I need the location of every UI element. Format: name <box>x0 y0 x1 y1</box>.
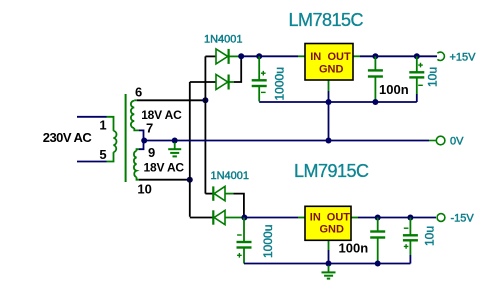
wire pin7 step <box>139 130 144 140</box>
junction node C1 top <box>256 53 262 59</box>
terminal -15V <box>437 214 445 222</box>
wire U1 gnd to 0V rail <box>328 91 330 141</box>
capacitor C3 10u <box>409 56 424 94</box>
regulator U1 LM7815C <box>298 44 360 92</box>
wire pin10 to diodes <box>139 179 190 181</box>
svg-text:230V AC: 230V AC <box>43 130 93 145</box>
svg-text:5: 5 <box>99 147 106 162</box>
svg-text:1N4001: 1N4001 <box>204 34 243 46</box>
wire 0V rail <box>144 140 429 142</box>
wire U1 output rail <box>360 55 437 57</box>
terminal 0V <box>436 136 445 145</box>
junction node C5 top <box>375 215 381 221</box>
svg-text:-15V: -15V <box>451 213 475 225</box>
wire vertical pin10 bus <box>189 82 191 217</box>
junction node C5 bottom <box>375 261 381 267</box>
junction node gnd cap rail <box>326 99 332 105</box>
ground centre tap <box>168 143 181 157</box>
svg-text:100n: 100n <box>339 240 369 255</box>
junction node gnd 0V rail <box>326 138 332 144</box>
wire capacitor bottom rail lower <box>244 263 410 265</box>
diode D4 1N4001 <box>190 210 245 224</box>
wire C3 bottom corner <box>416 94 418 102</box>
diode D3 1N4001 <box>205 186 233 200</box>
capacitor C4 1000u <box>237 218 252 264</box>
svg-text:LM7915C: LM7915C <box>294 161 369 181</box>
junction node C2 top <box>372 53 378 59</box>
svg-text:OUT: OUT <box>327 211 351 223</box>
junction node centre tap <box>141 138 147 144</box>
wire capacitor bottom rail upper <box>259 101 417 103</box>
junction node C3 top <box>414 53 420 59</box>
svg-text:IN: IN <box>310 51 321 63</box>
wire negative rail <box>244 217 298 219</box>
wire positive rail <box>241 55 298 57</box>
junction node pin6 <box>202 97 208 103</box>
capacitor C1 1000u <box>252 56 267 101</box>
regulator U2 LM7915C <box>298 206 358 250</box>
junction node pin10 <box>187 177 193 183</box>
wire U2 output rail <box>358 217 436 219</box>
svg-text:+15V: +15V <box>450 51 477 63</box>
svg-text:1: 1 <box>99 118 106 133</box>
junction node C2 bottom <box>372 99 378 105</box>
wire D2 cathode to positive node <box>234 56 241 82</box>
svg-text:7: 7 <box>146 120 153 135</box>
svg-text:9: 9 <box>148 145 155 160</box>
svg-text:GND: GND <box>319 64 344 76</box>
transformer T1 secondary winding lower 18V <box>134 149 139 180</box>
svg-text:1000u: 1000u <box>261 225 275 258</box>
diode D1 1N4001 <box>205 49 241 64</box>
diode D2 1N4001 <box>190 75 234 90</box>
transformer T1 core <box>125 94 127 182</box>
svg-text:100n: 100n <box>379 82 409 97</box>
svg-text:GND: GND <box>320 223 345 235</box>
wire D3 anode to negative node <box>233 194 244 218</box>
svg-text:10u: 10u <box>423 226 437 246</box>
wire vertical pin6 bus <box>204 56 206 193</box>
svg-text:1000u: 1000u <box>273 67 287 100</box>
svg-text:6: 6 <box>135 84 142 99</box>
svg-text:OUT: OUT <box>328 51 352 63</box>
svg-text:18V AC: 18V AC <box>144 161 185 175</box>
transformer T1 secondary winding upper 18V <box>131 100 139 130</box>
svg-text:10: 10 <box>137 182 151 197</box>
transformer T1 primary winding 230V <box>114 131 117 152</box>
wire U2 gnd to cap rail <box>328 250 330 264</box>
wire C6 bottom corner <box>409 255 411 264</box>
wire pin9 step <box>139 141 144 150</box>
capacitor C5 100n <box>370 218 385 264</box>
capacitor C2 100n <box>368 56 383 102</box>
transformer T1 primary wire pin1 <box>77 117 114 131</box>
terminal +15V <box>437 52 444 60</box>
junction node C6 top <box>407 215 413 221</box>
svg-text:1N4001: 1N4001 <box>211 170 250 182</box>
junction node negative rectifier <box>241 215 247 221</box>
svg-text:LM7815C: LM7815C <box>289 10 364 30</box>
svg-text:10u: 10u <box>426 67 440 87</box>
junction node positive rectifier <box>238 53 244 59</box>
ground U2 <box>322 266 336 279</box>
svg-text:0V: 0V <box>450 136 464 148</box>
capacitor C6 10u <box>403 218 418 256</box>
wire pin6 to diodes <box>137 99 206 101</box>
wire 0V terminal stub <box>429 140 436 142</box>
svg-text:IN: IN <box>310 211 321 223</box>
junction node ground tap <box>172 138 178 144</box>
transformer T1 primary wire pin5 <box>77 152 114 161</box>
junction node U2 gnd <box>326 261 332 267</box>
